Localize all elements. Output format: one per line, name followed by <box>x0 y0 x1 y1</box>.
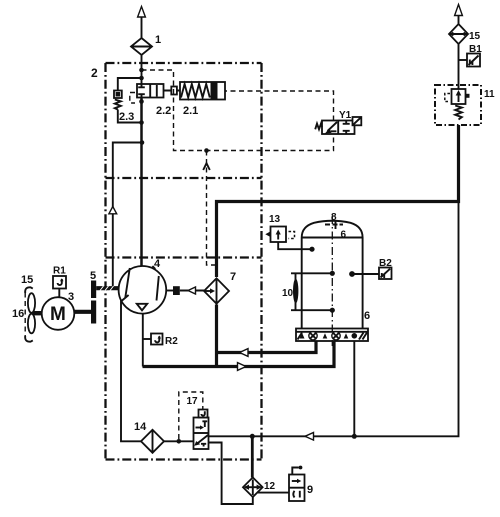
svg-text:2: 2 <box>91 66 98 80</box>
svg-text:Y1: Y1 <box>339 110 352 121</box>
svg-text:7: 7 <box>230 271 236 283</box>
svg-text:5: 5 <box>90 270 96 282</box>
svg-text:4: 4 <box>154 258 161 270</box>
svg-text:3: 3 <box>68 291 74 303</box>
svg-text:1: 1 <box>155 34 161 46</box>
svg-text:12: 12 <box>264 481 276 492</box>
svg-text:14: 14 <box>134 421 147 433</box>
svg-text:2.1: 2.1 <box>183 105 198 117</box>
svg-text:6: 6 <box>341 230 347 241</box>
svg-text:15: 15 <box>469 31 481 42</box>
svg-text:17: 17 <box>187 396 199 407</box>
svg-text:2.2: 2.2 <box>156 105 171 117</box>
svg-text:6: 6 <box>364 310 370 322</box>
svg-text:M: M <box>50 304 66 325</box>
svg-text:R1: R1 <box>53 266 66 277</box>
svg-text:B2: B2 <box>379 258 392 269</box>
svg-text:2.3: 2.3 <box>119 111 134 123</box>
svg-text:10: 10 <box>282 288 294 299</box>
svg-text:9: 9 <box>307 484 313 496</box>
svg-text:B1: B1 <box>469 44 482 55</box>
svg-text:R2: R2 <box>165 336 178 347</box>
svg-text:15: 15 <box>21 274 33 286</box>
svg-text:11: 11 <box>484 89 495 100</box>
svg-text:13: 13 <box>269 214 281 225</box>
svg-text:16: 16 <box>12 308 24 320</box>
svg-text:8: 8 <box>331 212 337 223</box>
